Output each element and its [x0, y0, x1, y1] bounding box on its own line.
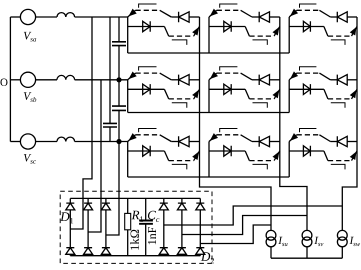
transistor Scw upper IGBT collector: [319, 135, 330, 142]
wire Saw upper branch: [330, 16, 337, 18]
wire Sbu upper branch to bus: [189, 79, 199, 81]
wire Sav left rail: [208, 17, 210, 53]
transistor Saw upper IGBT collector: [319, 10, 330, 17]
transistor Scu lower IGBT collector: [164, 151, 168, 161]
transistor Scu upper IGBT gate lead: [139, 129, 157, 133]
transistor Sbw upper IGBT collector: [319, 73, 330, 80]
wire Scv upper branch: [252, 141, 259, 143]
transistor Sbu upper IGBT emitter arrow: [129, 72, 136, 79]
transistor Sbu lower IGBT emitter: [194, 89, 200, 99]
transistor Scv upper IGBT emitter arrow: [210, 134, 217, 141]
transistor Sbu upper IGBT gate lead: [139, 67, 157, 71]
transistor Scv lower IGBT gate lead: [253, 164, 268, 169]
transistor Sav lower IGBT emitter: [274, 27, 280, 37]
transistor Sav upper IGBT collector: [241, 10, 252, 17]
wire phase a to matrix: [75, 16, 128, 18]
wire Cab branch lower: [118, 46, 120, 80]
diode Scw upper (points left): [337, 136, 347, 146]
diode D1a lower (points up): [66, 248, 75, 255]
label D2: [201, 252, 214, 263]
transistor Scu lower IGBT emitter: [194, 151, 200, 161]
resistor Rc lead lower: [127, 230, 129, 256]
transistor Sau lower IGBT gate lead: [172, 40, 187, 45]
capacitor Cca: [103, 123, 117, 127]
wire clamp leg D2u bottom: [163, 254, 165, 255]
transistor Sbv lower IGBT emitter arrow: [273, 90, 279, 97]
transistor Sbw lower IGBT collector: [324, 89, 328, 99]
diode Sbw middle (points right): [303, 84, 310, 94]
wire Cca branch upper: [109, 17, 111, 123]
transistor Scv lower IGBT channel bar: [249, 160, 274, 162]
transistor Scw lower IGBT emitter arrow: [350, 152, 356, 159]
transistor Saw lower IGBT collector: [324, 27, 328, 37]
inductor phase a: [57, 13, 75, 17]
wire source Vsa to inductor: [36, 16, 57, 18]
diode D2u upper (points up): [159, 203, 168, 210]
load current source Isw: [337, 230, 347, 240]
wire Saw middle branch: [289, 26, 324, 28]
clamp top rail: [70, 197, 200, 199]
transistor Sav upper IGBT channel bar: [217, 9, 241, 11]
transistor Scv upper IGBT channel bar: [217, 134, 241, 136]
diode Saw upper (points left): [337, 12, 347, 22]
diode D2u lower (points up): [159, 248, 168, 255]
wire Saw upper branch to bus: [347, 16, 357, 18]
node O label: [0, 79, 7, 86]
wire Sav middle branch: [209, 26, 245, 28]
label Isw: [350, 237, 361, 246]
wire clamp leg D1a middle: [69, 210, 71, 248]
wire output bus v: [280, 17, 307, 231]
transistor Sbw lower IGBT channel bar: [328, 98, 352, 100]
transistor Saw upper IGBT emitter: [289, 10, 296, 17]
transistor Sbw upper IGBT emitter: [289, 73, 296, 80]
transistor Scu upper IGBT collector: [160, 135, 172, 142]
wire clamp leg D1c middle: [105, 210, 107, 248]
clamp dashed box: [60, 191, 212, 263]
wire O bus vertical: [9, 17, 11, 142]
transistor Saw lower IGBT gate lead: [331, 40, 345, 45]
wire phase a clamp feed: [70, 17, 92, 229]
wire O to source Vsb: [10, 79, 20, 81]
transistor Sbw lower IGBT gate lead: [331, 103, 345, 108]
wire Scv left rail: [208, 142, 210, 178]
transistor Scw lower IGBT gate lead: [331, 164, 345, 169]
transistor Sau upper IGBT channel bar: [136, 9, 160, 11]
transistor Scu lower IGBT emitter arrow: [193, 152, 199, 159]
capacitor Cbc: [112, 106, 126, 110]
transistor Sbu upper IGBT channel bar: [136, 72, 160, 74]
transistor Scv lower IGBT emitter: [274, 151, 280, 161]
transistor Scu lower IGBT channel bar: [169, 160, 194, 162]
diode Sav middle (points right): [224, 21, 231, 31]
transistor Sav lower IGBT collector: [245, 27, 249, 37]
wire phase c to matrix: [75, 141, 128, 143]
transistor Sau lower IGBT emitter arrow: [193, 28, 199, 35]
wire clamp leg D2v bottom: [181, 254, 183, 255]
diode Sau upper (points left): [179, 12, 190, 22]
transistor Scw lower IGBT emitter: [352, 151, 358, 161]
transistor Scu lower IGBT gate lead: [172, 164, 187, 169]
transistor Sbv lower IGBT emitter: [274, 89, 280, 99]
transistor Sbv upper IGBT emitter arrow: [210, 72, 217, 79]
wire Sav upper branch to bus: [270, 16, 280, 18]
label Vsa: [24, 32, 36, 42]
wire Sau middle branch: [128, 26, 165, 28]
wire clamp leg D2v middle: [181, 210, 183, 248]
transistor Sau upper IGBT gate lead: [139, 4, 157, 8]
wire input row b bottom link: [128, 112, 290, 114]
wire output bus u: [200, 17, 272, 231]
diode D2w upper (points up): [196, 203, 205, 210]
load current source Isv: [302, 230, 312, 240]
wire Scu upper branch: [171, 141, 178, 143]
label Vsc: [24, 154, 36, 164]
wire Scu middle branch: [128, 150, 165, 152]
wire O to source Vsa: [10, 16, 20, 18]
diode D1c upper (points up): [101, 203, 110, 210]
transistor Sav lower IGBT emitter arrow: [273, 28, 279, 35]
wire phase b clamp feed: [88, 80, 101, 232]
transistor Sbu lower IGBT gate lead: [172, 103, 187, 108]
transistor Sbu lower IGBT collector: [164, 89, 168, 99]
diode Sbv upper (points left): [259, 75, 269, 85]
diode Sau middle (points right): [143, 21, 151, 31]
transistor Sbu upper IGBT collector: [160, 73, 172, 80]
source Vsb: [20, 72, 35, 87]
wire Cab branch upper: [118, 17, 120, 42]
wire Scv upper branch to bus: [270, 141, 280, 143]
wire input row a bottom link: [128, 52, 290, 54]
label 1kOhm: [130, 230, 139, 250]
transistor Sbw lower IGBT emitter arrow: [350, 90, 356, 97]
diode D1b upper (points up): [84, 203, 93, 210]
label D1: [60, 212, 73, 223]
transistor Saw upper IGBT emitter arrow: [291, 9, 298, 16]
transistor Sbw upper IGBT channel bar: [297, 72, 320, 74]
wire clamp leg D2w bottom: [199, 254, 201, 255]
wire Sbw upper branch to bus: [347, 79, 357, 81]
wire clamp to load v: [182, 216, 307, 235]
wire phase c clamp feed: [106, 142, 119, 236]
source Vsc: [20, 134, 35, 149]
wire clamp leg D1c bottom: [105, 254, 107, 255]
wire clamp leg D1b top: [87, 198, 89, 203]
inductor phase c: [57, 137, 75, 141]
wire clamp to load u: [200, 225, 271, 244]
transistor Sav upper IGBT emitter arrow: [210, 9, 217, 16]
resistor Rc body: [125, 213, 131, 229]
wire clamp leg D2u top: [163, 198, 165, 203]
transistor Saw upper IGBT gate lead: [300, 4, 317, 8]
wire Scu left rail: [127, 142, 129, 178]
wire Saw left rail: [288, 17, 290, 53]
transistor Scu upper IGBT emitter arrow: [129, 134, 136, 141]
transistor Sbv upper IGBT emitter: [209, 73, 217, 80]
transistor Sbv lower IGBT collector: [245, 89, 249, 99]
source Vsa: [20, 9, 35, 24]
transistor Sav upper IGBT gate lead: [220, 4, 238, 8]
capacitor Cc plates: [139, 221, 153, 224]
label Isv: [314, 237, 323, 246]
wire Sbw upper branch: [330, 79, 337, 81]
wire Sau upper branch to bus: [189, 16, 199, 18]
transistor Sbw lower IGBT emitter: [352, 89, 358, 99]
diode Sbu upper (points left): [179, 75, 190, 85]
diode D2v lower (points up): [177, 248, 186, 255]
wire clamp leg D2w middle: [199, 210, 201, 248]
transistor Scv lower IGBT emitter arrow: [273, 152, 279, 159]
diode Saw middle (points right): [303, 21, 310, 31]
transistor Sav lower IGBT channel bar: [249, 35, 274, 37]
diode Scw middle (points right): [303, 146, 310, 156]
diode Sbw upper (points left): [337, 75, 347, 85]
transistor Saw lower IGBT channel bar: [328, 35, 352, 37]
wire Sbu middle branch: [128, 88, 165, 90]
wire clamp leg D2v top: [181, 198, 183, 203]
wire source Vsc to inductor: [36, 141, 57, 143]
transistor Sbv lower IGBT channel bar: [249, 98, 274, 100]
wire Sbv middle branch: [209, 88, 245, 90]
transistor Scv lower IGBT collector: [245, 151, 249, 161]
diode Scv middle (points right): [224, 146, 231, 156]
transistor Scw upper IGBT gate lead: [300, 129, 317, 133]
wire phase b to matrix: [75, 79, 128, 81]
transistor Sau lower IGBT channel bar: [169, 35, 194, 37]
label Isu: [278, 237, 287, 246]
capacitor Cc lead lower: [145, 224, 147, 255]
wire Sbu upper branch: [171, 79, 178, 81]
transistor Sbu upper IGBT emitter: [128, 73, 136, 80]
transistor Sbu lower IGBT channel bar: [169, 98, 194, 100]
label Cc: [148, 211, 159, 222]
transistor Saw lower IGBT emitter arrow: [350, 28, 356, 35]
wire Sbw middle branch: [289, 88, 324, 90]
diode Scu middle (points right): [143, 146, 151, 156]
wire load Isw bottom: [341, 247, 343, 258]
wire Scv middle branch: [209, 150, 245, 152]
node phase c junction: [116, 139, 121, 144]
wire source Vsb to inductor: [36, 79, 57, 81]
wire clamp leg D1a top: [69, 198, 71, 203]
transistor Scw lower IGBT collector: [324, 151, 328, 161]
transistor Scw upper IGBT emitter arrow: [291, 134, 298, 141]
transistor Scv upper IGBT collector: [241, 135, 252, 142]
capacitor Cab: [112, 42, 126, 46]
load current source Isu: [266, 230, 276, 240]
wire clamp leg D1a bottom: [69, 254, 71, 255]
inductor phase b: [57, 75, 75, 79]
transistor Sbw upper IGBT gate lead: [300, 67, 317, 71]
diode Sav upper (points left): [259, 12, 269, 22]
transistor Sbu lower IGBT emitter arrow: [193, 90, 199, 97]
wire Sbv left rail: [208, 80, 210, 113]
diode D2v upper (points up): [177, 203, 186, 210]
wire load neutral: [271, 257, 342, 259]
diode D2w lower (points up): [196, 248, 205, 255]
transistor Sbv upper IGBT channel bar: [217, 72, 241, 74]
diode Scv upper (points left): [259, 136, 269, 146]
transistor Sbw upper IGBT emitter arrow: [291, 72, 298, 79]
resistor Rc lead upper: [127, 198, 129, 213]
wire Cbc branch upper: [118, 80, 120, 106]
transistor Sau upper IGBT emitter arrow: [129, 9, 136, 16]
transistor Sau lower IGBT emitter: [194, 27, 200, 37]
diode Scu upper (points left): [179, 136, 190, 146]
transistor Sbv upper IGBT collector: [241, 73, 252, 80]
wire clamp leg D1b middle: [87, 210, 89, 248]
wire load Isv bottom: [306, 247, 308, 258]
label R1: [132, 211, 144, 222]
wire Sau upper branch: [171, 16, 178, 18]
wire clamp leg D1c top: [105, 198, 107, 203]
transistor Scw upper IGBT channel bar: [297, 134, 320, 136]
wire Cca branch lower: [109, 127, 111, 142]
clamp bottom rail: [70, 255, 200, 257]
transistor Sav upper IGBT emitter: [209, 10, 217, 17]
wire Sbw left rail: [288, 80, 290, 113]
wire clamp leg D2u middle: [163, 210, 165, 248]
transistor Saw upper IGBT channel bar: [297, 9, 320, 11]
transistor Scw upper IGBT emitter: [289, 135, 296, 142]
transistor Sbv upper IGBT gate lead: [220, 67, 238, 71]
wire Scw left rail: [288, 142, 290, 178]
transistor Scu upper IGBT channel bar: [136, 134, 160, 136]
transistor Saw lower IGBT emitter: [352, 27, 358, 37]
transistor Scw lower IGBT channel bar: [328, 160, 352, 162]
transistor Sau upper IGBT emitter: [128, 10, 136, 17]
capacitor Cc lead upper: [145, 198, 147, 221]
wire O to source Vsc: [10, 141, 20, 143]
transistor Scv upper IGBT gate lead: [220, 129, 238, 133]
wire Cbc branch lower: [118, 110, 120, 141]
wire Scw upper branch to bus: [347, 141, 357, 143]
wire Scu upper branch to bus: [189, 141, 199, 143]
wire output bus w: [342, 17, 357, 231]
diode D1b lower (points up): [84, 248, 93, 255]
wire Sbv upper branch to bus: [270, 79, 280, 81]
wire Sav upper branch: [252, 16, 259, 18]
label 1nF: [148, 227, 156, 244]
wire clamp leg D2w top: [199, 198, 201, 203]
wire Sbv upper branch: [252, 79, 259, 81]
wire load Isu bottom: [270, 247, 272, 258]
node phase b junction: [116, 77, 121, 82]
diode D1a upper (points up): [66, 203, 75, 210]
diode Sbu middle (points right): [143, 84, 151, 94]
transistor Scu upper IGBT emitter: [128, 135, 136, 142]
wire clamp to load w: [164, 206, 342, 225]
diode Sbv middle (points right): [224, 84, 231, 94]
wire input row c bottom link: [128, 176, 290, 178]
diode D1c lower (points up): [101, 248, 110, 255]
label Vsb: [24, 92, 36, 102]
wire Scw upper branch: [330, 141, 337, 143]
wire Sau left rail: [127, 17, 129, 53]
transistor Sav lower IGBT gate lead: [253, 40, 268, 45]
transistor Sau upper IGBT collector: [160, 10, 172, 17]
transistor Sau lower IGBT collector: [164, 27, 168, 37]
wire clamp leg D1b bottom: [87, 254, 89, 255]
wire Sbu left rail: [127, 80, 129, 113]
wire Scw middle branch: [289, 150, 324, 152]
transistor Sbv lower IGBT gate lead: [253, 103, 268, 108]
transistor Scv upper IGBT emitter: [209, 135, 217, 142]
